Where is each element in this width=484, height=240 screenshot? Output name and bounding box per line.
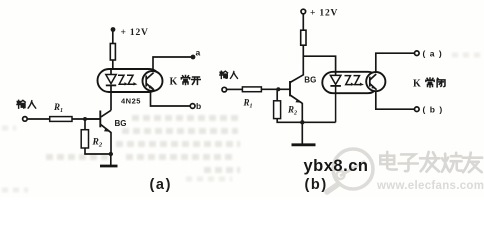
svg-text:K: K bbox=[170, 77, 178, 88]
svg-text:(b): (b) bbox=[305, 177, 328, 193]
svg-text:b: b bbox=[196, 101, 201, 111]
svg-text:a: a bbox=[196, 48, 201, 58]
svg-text:+ 12V: + 12V bbox=[121, 28, 149, 38]
svg-text:BG: BG bbox=[304, 76, 316, 85]
svg-text:+ 12V: + 12V bbox=[310, 9, 338, 19]
svg-text:(a): (a) bbox=[423, 49, 447, 59]
svg-text:www.elecfans.com: www.elecfans.com bbox=[376, 180, 484, 192]
svg-text:(b): (b) bbox=[423, 105, 447, 115]
svg-text:K: K bbox=[413, 79, 421, 90]
svg-text:BG: BG bbox=[115, 119, 127, 128]
svg-text:4N25: 4N25 bbox=[121, 97, 141, 106]
svg-text:R2: R2 bbox=[92, 138, 103, 149]
svg-text:R1: R1 bbox=[53, 102, 63, 114]
svg-text:ybx8.cn: ybx8.cn bbox=[304, 157, 369, 175]
svg-text:R1: R1 bbox=[243, 98, 253, 110]
svg-text:(a): (a) bbox=[150, 177, 173, 193]
svg-text:R2: R2 bbox=[287, 105, 297, 117]
